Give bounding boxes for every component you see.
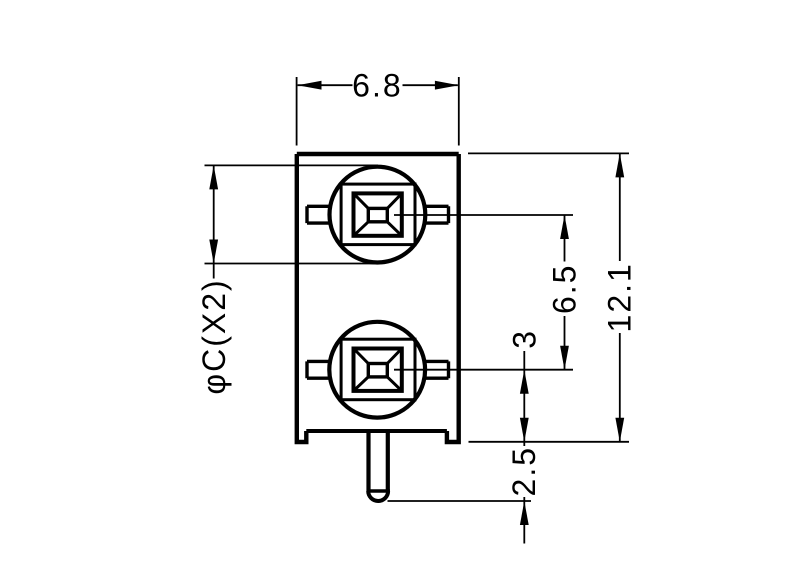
svg-text:φC(X2): φC(X2) [196, 278, 232, 394]
svg-text:2.5: 2.5 [506, 446, 542, 496]
svg-text:12.1: 12.1 [602, 262, 638, 332]
svg-text:3: 3 [507, 329, 543, 349]
svg-text:6.8: 6.8 [352, 67, 402, 103]
svg-text:6.5: 6.5 [546, 264, 582, 314]
